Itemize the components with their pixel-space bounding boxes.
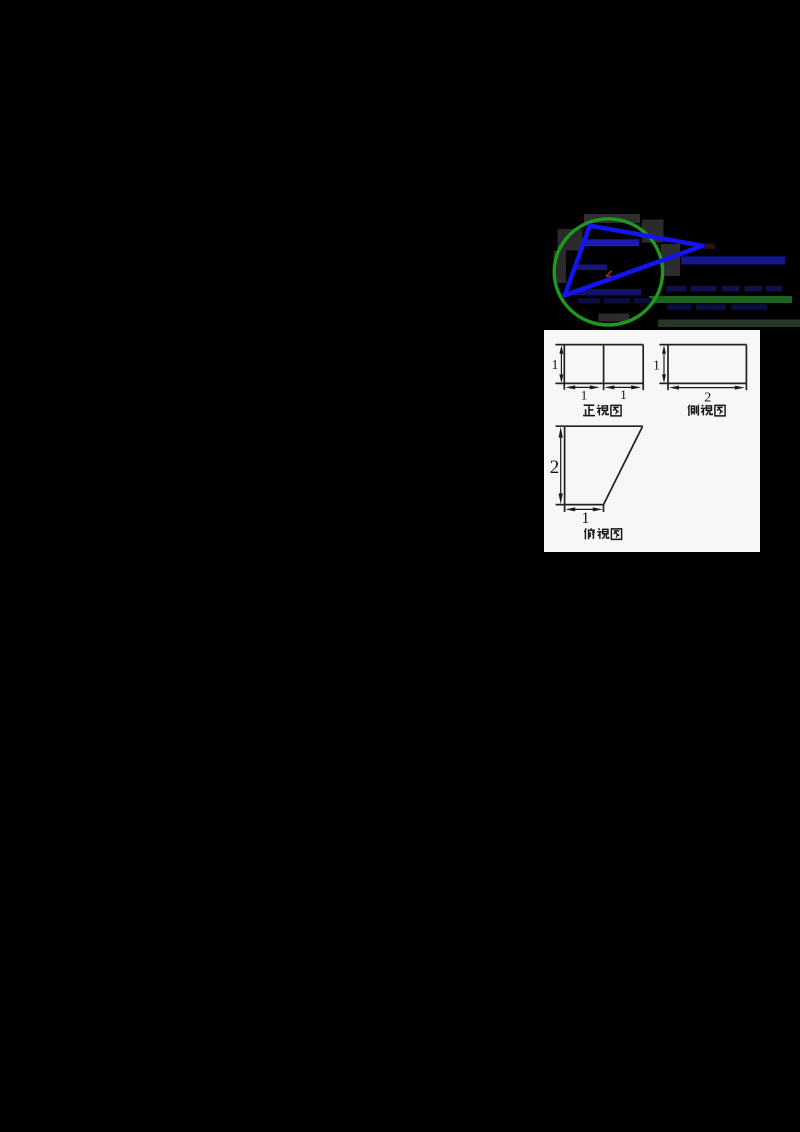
front view horizontal dimension arrow right bbox=[604, 385, 641, 389]
top view vertical dimension arrow bbox=[559, 427, 563, 504]
jpeg artifact patch at triangle apex bbox=[705, 244, 715, 250]
top view horizontal dimension arrow bbox=[565, 507, 603, 511]
top view caption 俯视图 bbox=[585, 528, 622, 539]
side view vertical dimension arrow bbox=[662, 345, 666, 383]
svg-text:1: 1 bbox=[581, 388, 588, 403]
svg-text:2: 2 bbox=[704, 390, 711, 405]
selection highlight bar 2 (navy, inside circle middle-left) bbox=[574, 264, 607, 270]
blue triangle annotation bbox=[565, 226, 703, 296]
selection highlight bar 1 (navy, inside circle top) bbox=[584, 239, 640, 246]
front view rectangle (正视图) bbox=[555, 345, 643, 391]
svg-text:1: 1 bbox=[552, 357, 559, 372]
jpeg artifact patch above circle bbox=[584, 214, 640, 223]
front view vertical dimension arrow bbox=[559, 345, 563, 383]
svg-text:2: 2 bbox=[550, 457, 560, 478]
front view caption 正视图 bbox=[583, 405, 621, 416]
jpeg artifact patch below circle bbox=[599, 314, 630, 322]
selection highlight dashed row inside circle bottom bbox=[578, 298, 652, 304]
side view horizontal dimension arrow bbox=[669, 386, 745, 390]
green circle annotation bbox=[554, 219, 662, 325]
selection highlight faint dashed row 2 (dark navy, right) bbox=[667, 304, 767, 309]
top view trapezoid (俯视图) bbox=[556, 426, 643, 512]
selection highlight dashed row (dark navy, right) bbox=[667, 286, 783, 292]
red pen mark near circle centre bbox=[606, 271, 611, 277]
svg-text:1: 1 bbox=[582, 510, 590, 527]
jpeg artifact patch upper-left of circle bbox=[558, 229, 583, 251]
dark grey-green strip above panel right bbox=[658, 320, 800, 328]
svg-text:1: 1 bbox=[653, 357, 660, 372]
front view horizontal dimension arrow left bbox=[565, 385, 600, 389]
jpeg artifact patch left of circle bbox=[554, 251, 567, 284]
side view caption 侧视图 bbox=[688, 405, 725, 416]
selection highlight long bar (navy, right of circle) bbox=[681, 256, 785, 264]
selection highlight bar 4 (dark navy, inside circle lower) bbox=[573, 289, 642, 295]
svg-text:1: 1 bbox=[620, 387, 627, 402]
side view rectangle (侧视图) bbox=[659, 345, 746, 391]
jpeg artifact patch upper-right of circle bbox=[642, 220, 664, 243]
jpeg artifact patch right of circle bbox=[661, 244, 680, 276]
white figure panel bbox=[544, 330, 760, 552]
selection highlight dark green bar (right) bbox=[649, 296, 792, 303]
